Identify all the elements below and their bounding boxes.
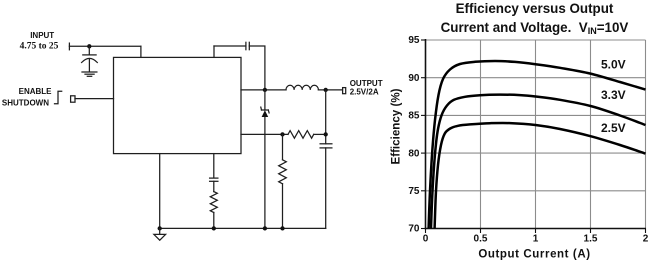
curve 2.5V (435, 123, 646, 229)
wire enable to IC (75, 98, 114, 100)
diode D1 schottky (264, 90, 266, 110)
node rising-edge symbol (55, 91, 62, 104)
svg-text:0.5: 0.5 (474, 234, 488, 245)
curve 5.0V (429, 61, 646, 229)
svg-text:75: 75 (408, 186, 420, 197)
node output junction (324, 88, 328, 92)
svg-text:Efficiency (%): Efficiency (%) (389, 88, 402, 164)
node rail junctions (158, 226, 162, 230)
capacitor CCOMP (210, 177, 218, 179)
wire inductor to output (318, 89, 342, 91)
node OUTPUT port pad (343, 88, 346, 94)
wire R1 to output node (314, 133, 326, 135)
wire ground rail (160, 227, 326, 229)
svg-text:2.5V/2A: 2.5V/2A (350, 88, 379, 97)
chart gridlines (426, 40, 646, 229)
svg-text:0: 0 (423, 234, 429, 245)
wire diode to ground rail (264, 117, 266, 228)
resistor RCOMP (210, 192, 217, 213)
wire COUT to ground rail (325, 148, 327, 229)
capacitor CBOOST (245, 42, 247, 49)
wire boost top (214, 45, 246, 47)
wire input rail (69, 45, 140, 47)
capacitor COUT (320, 143, 332, 145)
node INPUT terminal tick (68, 43, 70, 50)
wire output node down (325, 90, 327, 144)
y tick labels (408, 35, 420, 235)
svg-text:4.75 to 25: 4.75 to 25 (20, 41, 59, 51)
wire IC GND pin down (159, 154, 161, 229)
op-amp U1 regulator IC box (114, 57, 242, 153)
wire BOOST pin up (213, 46, 215, 57)
wire CIN to ground (88, 59, 90, 72)
wire FB from IC (241, 133, 288, 135)
svg-text:Efficiency versus Output: Efficiency versus Output (456, 1, 614, 16)
ground symbol arrow (159, 228, 161, 234)
wire boost to switch node (249, 46, 265, 90)
svg-text:3.3V: 3.3V (601, 88, 626, 102)
svg-text:5.0V: 5.0V (601, 58, 626, 72)
svg-text:Output Current (A): Output Current (A) (478, 249, 590, 261)
node FB junction (280, 132, 284, 136)
svg-text:Current and Voltage. VIN=10V: Current and Voltage. VIN=10V (441, 20, 629, 36)
curve 3.3V (431, 95, 646, 229)
inductor L1 (286, 85, 318, 90)
svg-text:2: 2 (643, 234, 649, 245)
wire input down to IC VIN pin (140, 46, 142, 57)
wire COMP pin down (213, 154, 215, 178)
svg-text:80: 80 (408, 148, 420, 159)
node switch junction (263, 88, 267, 92)
svg-text:95: 95 (408, 35, 420, 46)
capacitor CIN (83, 54, 96, 56)
svg-text:1.5: 1.5 (584, 234, 598, 245)
ground (earth) under CIN (82, 71, 97, 73)
svg-text:SHUTDOWN: SHUTDOWN (2, 99, 49, 108)
node input junction (87, 44, 91, 48)
svg-text:70: 70 (408, 224, 420, 235)
wire CCOMP to RCOMP (213, 181, 215, 191)
wire SW pin to inductor (241, 89, 286, 91)
svg-text:2.5V: 2.5V (601, 121, 626, 135)
node FB-output junction (324, 132, 328, 136)
wire input junction to CIN (88, 46, 90, 54)
svg-text:85: 85 (408, 111, 420, 122)
x tick labels (423, 234, 649, 245)
svg-text:1: 1 (533, 234, 539, 245)
node ENABLE pin pad (71, 96, 75, 102)
chart axis ticks (421, 40, 646, 233)
svg-text:INPUT: INPUT (30, 31, 54, 40)
resistor R2 feedback bottom (282, 134, 284, 159)
svg-text:90: 90 (408, 73, 420, 84)
svg-text:ENABLE: ENABLE (19, 87, 53, 96)
chart axes (425, 39, 646, 229)
resistor R1 feedback top (288, 131, 314, 139)
